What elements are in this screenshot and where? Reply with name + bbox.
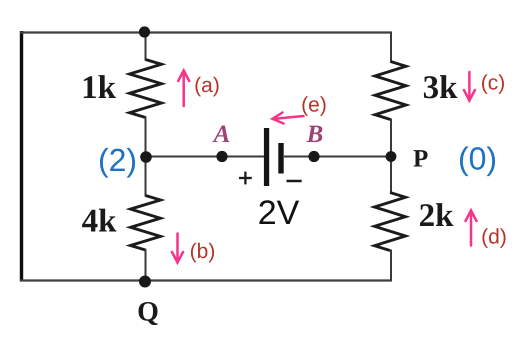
svg-text:A: A bbox=[212, 121, 231, 148]
wire: middle branch lead (middle node to 4k) bbox=[145, 157, 147, 197]
svg-text:(a): (a) bbox=[194, 74, 220, 97]
wire: middle branch upper lead (top node to 1k) bbox=[145, 32, 147, 61]
label - bbox=[287, 180, 302, 183]
svg-text:(d): (d) bbox=[481, 226, 507, 249]
node B bbox=[308, 151, 319, 162]
label + bbox=[239, 172, 252, 185]
wire: middle horizontal, node(2) to battery + plate bbox=[146, 156, 264, 158]
current arrow (d) up bbox=[466, 211, 477, 246]
wire: middle branch lead (1k to middle node) bbox=[145, 117, 147, 158]
current arrow (a) up bbox=[178, 71, 189, 107]
svg-text:(e): (e) bbox=[301, 94, 327, 117]
svg-text:(0): (0) bbox=[458, 141, 497, 177]
svg-text:3k: 3k bbox=[423, 70, 459, 106]
current arrow (b) down bbox=[172, 234, 183, 263]
node A bbox=[216, 151, 227, 162]
current arrow (e) left bbox=[273, 113, 304, 124]
wire: right branch lead (2k to bottom wire) bbox=[390, 250, 392, 282]
node: top junction bbox=[139, 26, 150, 37]
wire: left vertical side bbox=[20, 31, 23, 282]
svg-text:(b): (b) bbox=[190, 240, 216, 263]
wire: bottom horizontal bbox=[20, 279, 391, 281]
resistor R 3k zigzag bbox=[375, 62, 406, 120]
wire: top horizontal bbox=[20, 31, 392, 33]
svg-text:2k: 2k bbox=[419, 198, 455, 234]
svg-text:(2): (2) bbox=[98, 142, 137, 178]
battery V1 2V positive long plate bbox=[264, 128, 269, 186]
wire: right branch lead (3k to node P) bbox=[390, 119, 392, 158]
wire: middle horizontal, battery - plate to node P bbox=[284, 156, 391, 158]
resistor R 4k zigzag bbox=[131, 196, 161, 251]
svg-text:Q: Q bbox=[137, 297, 159, 328]
node P junction bbox=[386, 151, 397, 162]
wire: right branch lead (node P to 2k) bbox=[390, 157, 392, 194]
svg-text:(c): (c) bbox=[481, 72, 506, 95]
current arrow (c) down bbox=[464, 72, 475, 101]
svg-text:P: P bbox=[413, 146, 428, 173]
svg-text:4k: 4k bbox=[82, 204, 118, 240]
node Q junction bbox=[139, 276, 151, 288]
wire: middle branch lead (4k to bottom node Q) bbox=[145, 249, 147, 281]
svg-text:1k: 1k bbox=[81, 70, 117, 106]
svg-text:B: B bbox=[306, 121, 324, 148]
battery V1 2V negative short plate bbox=[278, 143, 283, 174]
resistor R 2k zigzag bbox=[375, 193, 406, 251]
wire: right branch upper lead (top wire to 3k) bbox=[390, 32, 392, 63]
node: middle junction (2) bbox=[140, 151, 152, 163]
svg-text:2V: 2V bbox=[258, 194, 300, 232]
resistor R 1k zigzag bbox=[130, 60, 162, 118]
